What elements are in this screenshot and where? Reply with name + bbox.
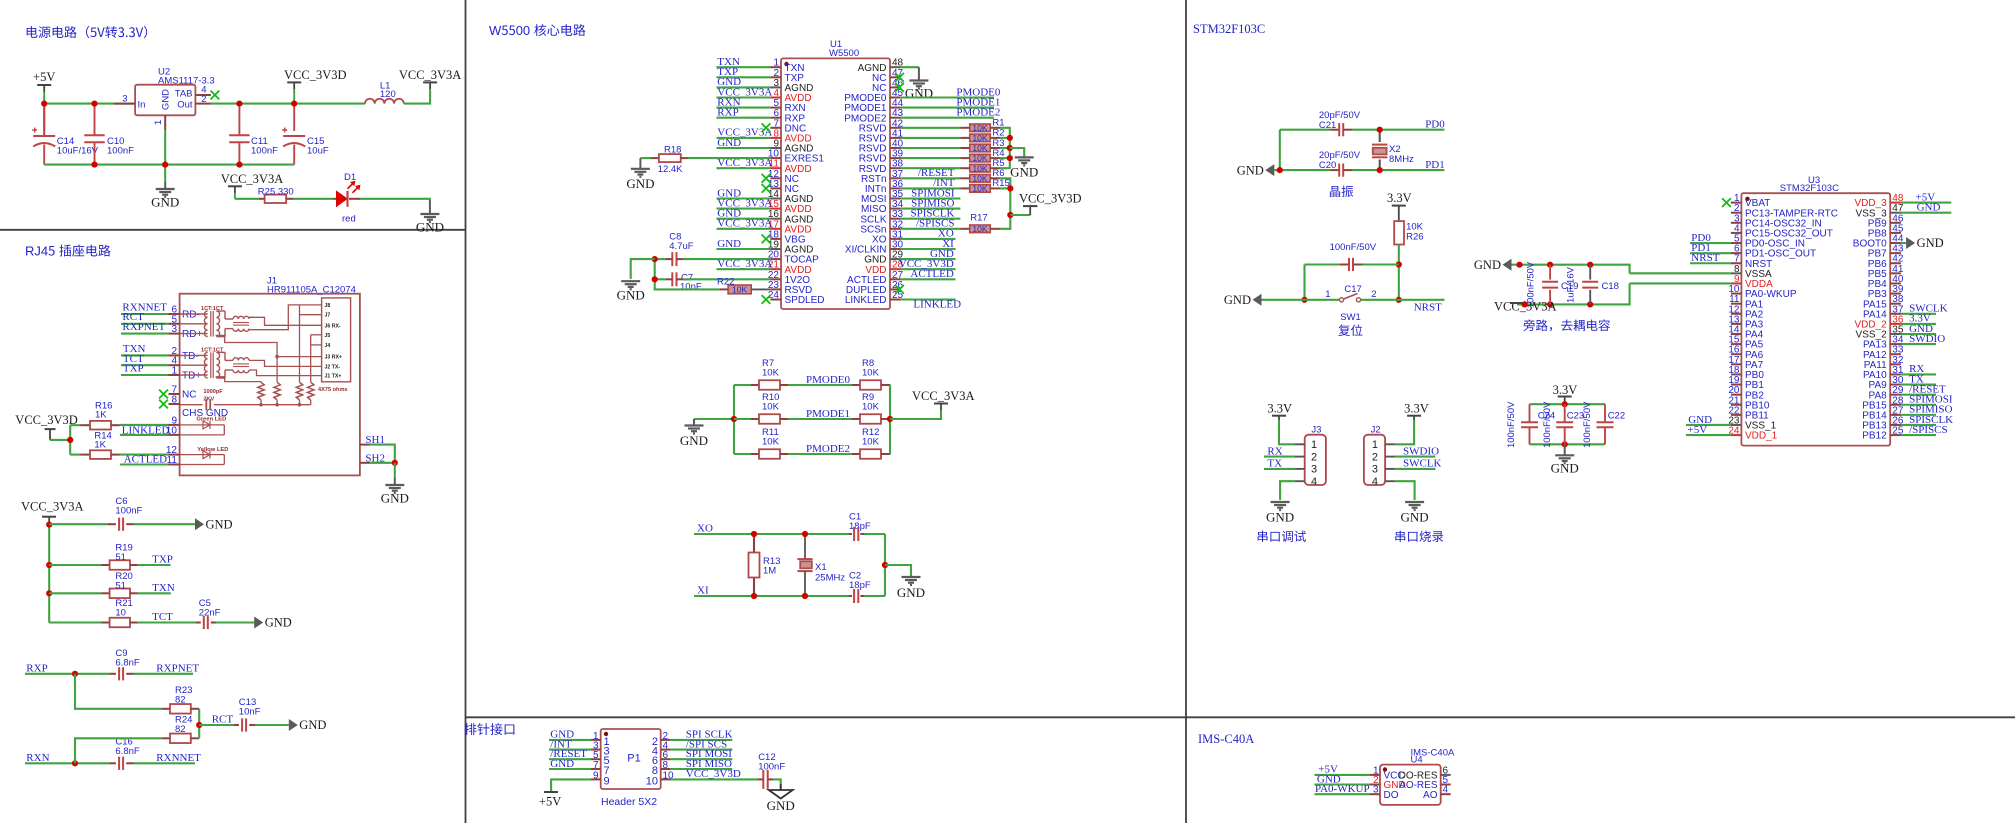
svg-text:XI: XI — [697, 585, 709, 597]
wire c13 gnd — [255, 724, 289, 726]
J3 pin 1 — [1295, 443, 1305, 445]
resistor R19 51 — [49, 564, 101, 566]
svg-text:4X75 ohms: 4X75 ohms — [318, 387, 348, 393]
U4 pin 6 DO-RES — [1441, 774, 1451, 776]
U3 pin 20 PB2 — [1731, 394, 1742, 396]
svg-text:R18: R18 — [664, 145, 681, 156]
svg-text:VCC_3V3D: VCC_3V3D — [284, 68, 347, 82]
J1 pin 11 — [169, 464, 180, 466]
svg-text:VCC_3V3D: VCC_3V3D — [1019, 192, 1082, 206]
svg-text:NRST: NRST — [1414, 302, 1442, 314]
net label SPIMOSI (U1) — [901, 197, 961, 199]
no-connect X pin1 VBAT — [1722, 198, 1731, 207]
svg-text:J2: J2 — [1371, 425, 1381, 436]
U3 pin 42 PB6 — [1890, 262, 1901, 264]
svg-text:J3: J3 — [1311, 425, 1321, 436]
net label SPISCLK (U1) — [901, 218, 961, 220]
junction dots power — [41, 101, 47, 107]
resistor R14 1K — [70, 454, 80, 456]
svg-text:GND: GND — [151, 195, 179, 210]
U3 pin 40 PB4 — [1890, 282, 1901, 284]
svg-text:LINKLED: LINKLED — [845, 295, 887, 306]
U3 pin 25 PB12 — [1890, 434, 1901, 436]
svg-text:1K: 1K — [95, 410, 107, 421]
U1 pin 36 INTn — [890, 187, 901, 189]
P1 pin 6 — [661, 758, 671, 760]
wire cap branch — [1303, 265, 1305, 300]
resistor R24 82 — [162, 737, 170, 739]
power flag +5V (P1) — [551, 779, 591, 792]
capacitor C13 10nF — [234, 724, 239, 726]
U3 pin 8 VSSA — [1731, 272, 1742, 274]
svg-text:100nF: 100nF — [251, 146, 278, 157]
resistor R17 10K — [901, 228, 961, 230]
svg-text:RXPNET: RXPNET — [156, 663, 199, 675]
U3 pin 35 VSS_2 — [1890, 333, 1901, 335]
resistor R5 10K — [901, 167, 961, 169]
wire vcc bus — [48, 524, 50, 622]
resistor R12 10K — [852, 453, 860, 455]
svg-text:red: red — [342, 214, 356, 225]
svg-text:TCT: TCT — [152, 611, 173, 623]
U1 pin 8 AVDD — [770, 137, 781, 139]
svg-text:120: 120 — [380, 89, 396, 100]
connector J3 — [1305, 435, 1326, 485]
U3 pin 6 PD1-OSC_OUT — [1731, 252, 1742, 254]
svg-text:2: 2 — [1371, 289, 1376, 300]
U3 pin 22 PB11 — [1731, 414, 1742, 416]
svg-text:GND: GND — [897, 585, 925, 600]
U3 pin 16 PA6 — [1731, 353, 1742, 355]
wire led to gnd — [360, 199, 430, 200]
capacitor C6 100nF — [49, 523, 108, 525]
svg-text:PMODE0: PMODE0 — [806, 374, 851, 386]
U3 pin 2 PC13-TAMPER-RTC — [1731, 212, 1742, 214]
U1 pin 31 XO — [890, 238, 901, 240]
no-connect X pins 47,46 — [895, 73, 904, 82]
J1 pin 10 — [169, 434, 180, 436]
svg-text:8: 8 — [171, 395, 177, 406]
U3 pin 21 PB10 — [1731, 404, 1742, 406]
U1 pin 9 AGND — [770, 147, 781, 149]
U1 pin 20 TOCAP — [770, 258, 781, 260]
svg-text:VCC_3V3A: VCC_3V3A — [21, 500, 84, 514]
U3 pin 14 PA4 — [1731, 333, 1742, 335]
svg-text:22nF: 22nF — [199, 608, 221, 619]
J1 pin 3 — [169, 333, 180, 335]
net label RCT2 — [199, 724, 234, 726]
gnd (SH) — [394, 463, 396, 478]
J2 pin 1 — [1385, 443, 1395, 445]
wire 3.3V to J3 pin1 — [1279, 420, 1295, 444]
U2 pin 1 GND — [164, 115, 166, 130]
svg-text:RXP: RXP — [26, 663, 47, 675]
U3 pin 19 PB1 — [1731, 384, 1742, 386]
svg-text:VDD_1: VDD_1 — [1745, 431, 1778, 442]
svg-text:TXN: TXN — [152, 582, 175, 594]
IC U4 IMS-C40A — [1380, 765, 1441, 805]
U3 pin 47 VSS_3 — [1890, 212, 1901, 214]
U3 pin 29 PA8 — [1890, 394, 1901, 396]
U2 pin 2 Out — [195, 103, 211, 105]
U3 pin 39 PB3 — [1890, 293, 1901, 295]
svg-text:TXP: TXP — [123, 363, 144, 375]
svg-text:GND: GND — [626, 176, 654, 191]
P1 pin 8 — [661, 768, 671, 770]
wire bypass bottom rail — [1517, 283, 1630, 304]
U1 pin 32 SCSn — [890, 228, 901, 230]
no-connect X — [762, 295, 771, 304]
gnd flag (crystal) — [1265, 164, 1274, 176]
svg-text:00: 00 — [516, 23, 534, 38]
net label PMODE0 (network) — [788, 384, 852, 386]
wire decoupling bottom rail — [1530, 443, 1606, 445]
net label TCT (rj45) — [138, 621, 197, 623]
U1 pin 3 AGND — [770, 86, 781, 88]
svg-text:10uF: 10uF — [307, 146, 329, 157]
svg-text:TAB: TAB — [175, 89, 193, 100]
gnd flag (c13) — [289, 719, 298, 731]
annotation 串口烧录 — [1395, 531, 1405, 542]
annotation 晶振 — [1330, 186, 1340, 197]
svg-text:RCT: RCT — [212, 713, 234, 725]
annotation 旁路，去耦电容 — [1523, 319, 1534, 331]
svg-text:R26: R26 — [1406, 232, 1423, 243]
U1 pin 14 AGND — [770, 198, 781, 200]
U3 pin 1 VBAT — [1731, 202, 1742, 204]
U1 pin 25 LINKLED — [890, 299, 901, 301]
svg-text:J5: J5 — [325, 333, 331, 339]
section title: header — [465, 723, 477, 735]
svg-text:51: 51 — [115, 552, 126, 563]
wire c20/c21 left bus — [1279, 130, 1281, 170]
svg-text:10K: 10K — [862, 437, 880, 448]
wire VSSA from bypass — [1630, 272, 1731, 274]
svg-text:RXPNET: RXPNET — [122, 321, 165, 333]
gnd (C12) open triangle — [780, 784, 782, 790]
svg-text:J3 RX+: J3 RX+ — [325, 355, 342, 361]
svg-text:100nF/50V: 100nF/50V — [1525, 261, 1536, 308]
svg-text:VCC_3V3A: VCC_3V3A — [221, 172, 284, 186]
resistor R1 10K — [901, 127, 961, 129]
net label TXP (rj45) — [138, 564, 171, 566]
resistor R4 10K — [901, 157, 961, 159]
svg-text:100nF: 100nF — [115, 506, 142, 517]
svg-text:GND: GND — [161, 89, 172, 110]
svg-text:10uF/16V: 10uF/16V — [57, 146, 99, 157]
svg-text:10nF: 10nF — [239, 706, 261, 717]
U3 pin 12 PA2 — [1731, 313, 1742, 315]
svg-text:C17: C17 — [1344, 284, 1361, 295]
svg-text:3.3V: 3.3V — [1404, 402, 1429, 416]
svg-text:8: 8 — [663, 760, 669, 771]
wire bypass top rail — [1512, 265, 1630, 274]
J3 pin 4 — [1295, 480, 1305, 482]
capacitor C24 100nF/50V — [1529, 404, 1531, 422]
J1 pin 4 — [169, 364, 180, 366]
svg-text:C18: C18 — [1602, 281, 1619, 292]
U3 pin 41 PB5 — [1890, 272, 1901, 274]
U3 pin 13 PA3 — [1731, 323, 1742, 325]
P1 pin 5 — [591, 758, 601, 760]
U1 pin 27 ACTLED — [890, 278, 901, 280]
svg-text:100nF/50V: 100nF/50V — [1542, 401, 1553, 448]
resistor R25 330 — [259, 198, 265, 200]
U1 pin 12 NC — [770, 177, 781, 179]
P1 pin 3 — [591, 749, 601, 751]
U3 pin 26 PB13 — [1890, 424, 1901, 426]
capacitor C14 — [43, 104, 45, 131]
net label VCC_3V3D (U1 pin28) — [901, 268, 956, 270]
gnd (R18) — [639, 158, 641, 169]
J2 pin 2 — [1385, 456, 1395, 458]
wire R1-R5 gnd bus — [1000, 128, 1010, 168]
wire rxp branch to R23 — [75, 674, 162, 709]
svg-text:82: 82 — [175, 695, 186, 706]
svg-text:10K: 10K — [762, 402, 780, 413]
resistor R3 10K — [901, 147, 961, 149]
capacitor C19 100nF/50V — [1549, 265, 1551, 280]
U2 pin 4 TAB — [195, 94, 211, 96]
U3 pin 46 PB9 — [1890, 222, 1901, 224]
svg-text:TD-: TD- — [182, 351, 199, 362]
svg-text:10K: 10K — [972, 123, 988, 133]
gnd (R1-R5) — [1010, 148, 1024, 157]
net label TXN (rj45) — [138, 592, 171, 594]
J1 pin 7 — [169, 393, 180, 395]
U3 pin 7 NRST — [1731, 262, 1742, 264]
net label LINKLED (U1) — [901, 298, 956, 300]
U1 pin 16 AGND — [770, 218, 781, 220]
U1 pin 15 AVDD — [770, 208, 781, 210]
svg-text:GND: GND — [1551, 461, 1579, 476]
svg-text:1: 1 — [1372, 439, 1378, 451]
wire J3 pin4 gnd — [1280, 481, 1295, 500]
svg-text:GND: GND — [206, 517, 233, 531]
resistor R11 10K — [734, 453, 751, 455]
section title: power — [27, 26, 38, 38]
gnd flag (c6) — [195, 518, 204, 530]
power flag +5V — [37, 84, 51, 86]
J1 pin 1 — [169, 374, 180, 376]
U3 pin 15 PA5 — [1731, 343, 1742, 345]
svg-text:GND: GND — [1224, 293, 1251, 307]
svg-text:C22: C22 — [1608, 410, 1625, 421]
U1 pin 44 PMODE1 — [890, 107, 901, 109]
gnd flag (bypass) — [1503, 259, 1512, 271]
wire decoupling top rail — [1530, 403, 1606, 405]
wire J2 pin4 gnd — [1395, 481, 1415, 500]
wire c5 gnd — [216, 621, 254, 623]
wire led row — [235, 198, 259, 200]
U1 pin 11 AVDD — [770, 167, 781, 169]
P1 pin 2 — [661, 739, 671, 741]
svg-text:3: 3 — [1311, 464, 1317, 476]
J1 internal wiring — [216, 305, 322, 382]
U3 pin 36 VDD_2 — [1890, 323, 1901, 325]
svg-text:1: 1 — [171, 366, 177, 377]
svg-text:VCC_3V3A: VCC_3V3A — [399, 68, 462, 82]
capacitor C9 6.8nF — [110, 673, 116, 675]
resistor R20 51 — [49, 592, 101, 594]
svg-text:3.3V: 3.3V — [1553, 383, 1578, 397]
svg-text:GND: GND — [1237, 163, 1264, 177]
U3 pin 11 PA1 — [1731, 303, 1742, 305]
svg-text:LINKLED: LINKLED — [913, 299, 961, 311]
U3 pin 3 PC14-OSC32_IN — [1731, 222, 1742, 224]
resistor R7 10K — [734, 384, 751, 386]
resistor R26 10K — [1394, 221, 1404, 244]
gnd flag (reset) — [1253, 294, 1262, 306]
U3 pin 31 PA10 — [1890, 373, 1901, 375]
svg-text:10K: 10K — [972, 173, 988, 183]
svg-text:R25 330: R25 330 — [258, 186, 294, 197]
J1 pin 12 — [169, 454, 180, 456]
svg-text:RJ4: RJ4 — [25, 244, 48, 259]
svg-text:AO: AO — [1423, 790, 1438, 801]
svg-text:PD0: PD0 — [1425, 119, 1445, 131]
svg-text:18pF: 18pF — [849, 521, 871, 532]
U4 pin 2 GND — [1370, 784, 1380, 786]
resistor R18 12.4K — [640, 157, 651, 159]
svg-text:J7: J7 — [325, 313, 331, 319]
U1 pin 47 NC — [890, 76, 901, 78]
U1 pin 45 PMODE0 — [890, 97, 901, 99]
svg-text:25MHz: 25MHz — [815, 573, 845, 584]
svg-text:XO: XO — [697, 523, 713, 535]
svg-text:PMODE1: PMODE1 — [806, 408, 850, 420]
svg-text:10K: 10K — [862, 368, 880, 379]
wire r25 to led — [293, 198, 333, 200]
U1 pin 13 NC — [770, 187, 781, 189]
resistor R23 82 — [162, 708, 170, 710]
svg-text:RXN: RXN — [26, 752, 49, 764]
svg-text:10nF: 10nF — [680, 282, 702, 293]
svg-text:2KV: 2KV — [203, 396, 214, 402]
svg-text:J1 TX+: J1 TX+ — [325, 374, 342, 380]
wire L1 to VCC_3V3A — [404, 90, 430, 103]
wire rxn branch to R24 — [75, 738, 162, 763]
svg-text:1: 1 — [1311, 439, 1317, 451]
svg-text:1: 1 — [153, 120, 164, 125]
U3 pin 32 PA11 — [1890, 363, 1901, 365]
U1 pin 21 AVDD — [770, 268, 781, 270]
P1 pin 9 — [591, 778, 601, 780]
U3 pin 27 PB14 — [1890, 414, 1901, 416]
connector J2 — [1364, 435, 1385, 485]
connector J1 HR911105A_C12074 — [180, 294, 360, 476]
U3 pin 44 BOOT0 — [1890, 242, 1901, 244]
inductor L1 — [365, 99, 404, 104]
P1 pin 1 — [591, 739, 601, 741]
svg-text:Header 5X2: Header 5X2 — [601, 796, 657, 808]
svg-text:3: 3 — [171, 324, 177, 335]
P1 pin 4 — [661, 749, 671, 751]
no-connect X pins 7,8 — [159, 390, 168, 399]
U3 pin 17 PA7 — [1731, 363, 1742, 365]
wire 3.3V to J2 pin1 — [1395, 420, 1414, 444]
U1 pin 40 RSVD — [890, 147, 901, 149]
U4 pin 5 AO-RES — [1441, 784, 1451, 786]
svg-text:GND: GND — [1401, 510, 1429, 525]
svg-text:9: 9 — [593, 770, 599, 781]
resistor R2 10K — [901, 137, 961, 139]
U1 pin 4 AVDD — [770, 97, 781, 99]
svg-text:10K: 10K — [972, 143, 988, 153]
U1 pin 18 VBG — [770, 238, 781, 240]
capacitor C23 100nF/50V — [1564, 404, 1566, 422]
svg-text:In: In — [138, 99, 146, 110]
J1 termination bottom rail — [214, 404, 311, 406]
svg-text:IMS-C40A: IMS-C40A — [1198, 732, 1254, 746]
U1 pin 24 SPDLED — [770, 299, 781, 301]
svg-text:4: 4 — [1372, 476, 1378, 488]
gnd (J2) — [1405, 502, 1424, 510]
U1 pin 41 RSVD — [890, 137, 901, 139]
svg-text:GND: GND — [299, 718, 326, 732]
svg-text:10K: 10K — [762, 368, 780, 379]
J1 pin 6 — [169, 313, 180, 315]
svg-text:4.7uF: 4.7uF — [669, 241, 693, 252]
svg-text:R17: R17 — [970, 213, 987, 224]
svg-text:10K: 10K — [972, 224, 988, 234]
svg-text:2: 2 — [1372, 451, 1378, 463]
svg-text:J4: J4 — [325, 343, 331, 349]
svg-text:GND: GND — [381, 491, 409, 506]
U1 pin 26 DUPLED — [890, 288, 901, 290]
svg-text:X1: X1 — [815, 562, 827, 573]
svg-text:100nF: 100nF — [107, 146, 134, 157]
power flag VCC_3V3D (U1 pullups) — [1010, 214, 1030, 216]
U1 pin 48 AGND — [890, 66, 901, 68]
svg-text:12.4K: 12.4K — [658, 164, 683, 175]
svg-text:10K: 10K — [862, 402, 880, 413]
resistor R16 1K — [70, 424, 80, 426]
wire R14 to pin12 — [120, 454, 169, 456]
svg-text:W: W — [489, 23, 502, 38]
svg-text:6.8nF: 6.8nF — [115, 658, 139, 669]
svg-text:GND: GND — [680, 433, 708, 448]
svg-text:10K: 10K — [972, 184, 988, 194]
U3 pin 28 PB15 — [1890, 404, 1901, 406]
power flag VCC_3V3A (led branch) — [228, 185, 242, 187]
svg-text:J8: J8 — [325, 303, 331, 309]
U3 pin 5 PD0-OSC_IN — [1731, 242, 1742, 244]
U3 pin 38 PA15 — [1890, 303, 1901, 305]
svg-text:SPDLED: SPDLED — [785, 295, 825, 306]
wire R26 to nrst — [1398, 245, 1400, 300]
U1 pin 30 XI/CLKIN — [890, 248, 901, 250]
U3 pin 24 VDD_1 — [1731, 434, 1742, 436]
svg-text:TD+: TD+ — [182, 371, 201, 382]
wire VDDA from bypass — [1630, 282, 1731, 284]
gnd (crystal) — [885, 565, 911, 577]
wire vcc to R16/R14 — [50, 439, 70, 441]
svg-text:3.3V: 3.3V — [1267, 402, 1292, 416]
wire pmode left bus — [733, 385, 735, 454]
U3 pin 10 PA0-WKUP — [1731, 293, 1742, 295]
U1 pin 6 RXP — [770, 117, 781, 119]
net label XO (U1) — [901, 238, 956, 240]
svg-text:100nF/50V: 100nF/50V — [1582, 401, 1593, 448]
U3 pin 45 PB8 — [1890, 232, 1901, 234]
J1 inner connector block — [322, 298, 351, 382]
svg-text:RD+: RD+ — [182, 329, 202, 340]
net label PMODE2 (network) — [788, 453, 852, 455]
U1 pin 22 1V2O — [770, 278, 781, 280]
wire out rail — [211, 103, 365, 105]
wire R6,R15,R17 vcc bus — [1000, 178, 1010, 229]
